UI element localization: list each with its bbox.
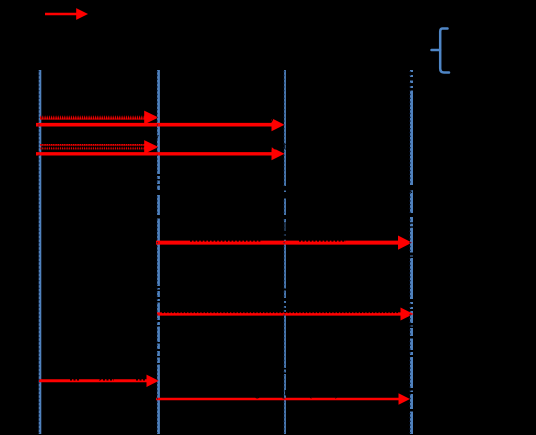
svg-text:RADIUS Accounting-Request (Sta: RADIUS Accounting-Request (Start): [162, 387, 339, 399]
lifeline 3: [284, 70, 286, 434]
svg-text:side of the connection: side of the connection: [293, 226, 400, 238]
svg-text:Access: Access: [262, 47, 298, 59]
letter-bottom bites on top edge of arrow 5: [70, 379, 146, 381]
svg-text:Access: Access: [128, 47, 164, 59]
svg-text:over the wired network: over the wired network: [163, 226, 274, 238]
row 1: zigzag wireless arrow: [40, 111, 159, 125]
lifeline 4 (Authentication server): [410, 70, 413, 434]
svg-text:Wireless: Wireless: [16, 47, 59, 59]
row 6: arrow AP -> AS: [156, 393, 410, 405]
brace nub: [432, 49, 441, 52]
svg-text:exchange then takes place: exchange then takes place: [293, 184, 424, 196]
letter-bottom bites on top edge of arrow 3: [190, 240, 346, 242]
invisible (black) text labels (headers and message names): [16, 9, 502, 153]
paragraph block between rows 2 and 3 (invisible black text, split around lifeline 3): [162, 184, 424, 238]
letter-bottom bites on top edge of arrow 4: [162, 312, 398, 314]
svg-text:server): server): [366, 82, 400, 94]
svg-text:EAP-Request/Identity: EAP-Request/Identity: [170, 111, 276, 123]
row-4 label block (invisible black text, split): [163, 281, 396, 329]
svg-text:containing EAP-Success: containing EAP-Success: [163, 293, 278, 305]
lifeline 2 (Access point): [157, 70, 160, 434]
svg-text:relaying the messages: relaying the messages: [293, 212, 404, 224]
row 5: arrow STA -> AP: [39, 375, 159, 387]
svg-text:between the supplicant: between the supplicant: [163, 198, 276, 210]
row 4: long arrow AP -> AS: [157, 308, 414, 321]
svg-text:RADIUS: RADIUS: [455, 51, 497, 63]
row 3: long arrow AP -> AS: [156, 236, 412, 250]
legend arrow (top-left): [45, 8, 88, 20]
svg-text:Authentication: Authentication: [364, 37, 434, 49]
dark dotted left-edge texture on lifelines: [39, 71, 410, 433]
svg-text:MPPE attributes: MPPE attributes: [163, 317, 239, 329]
svg-text:EAP over: EAP over: [455, 37, 502, 49]
svg-text:EAP-Response/Identity: EAP-Response/Identity: [45, 132, 159, 144]
occlusion dashes on lifeline 2 (text crossings): [157, 174, 162, 365]
svg-text:with the authenticator: with the authenticator: [162, 212, 268, 224]
svg-text:Access-Accept message: Access-Accept message: [163, 281, 278, 293]
brace (top right): [440, 29, 449, 73]
svg-text:returned with Success: returned with Success: [293, 281, 396, 293]
row-5/6 labels (invisible black text): [45, 369, 339, 399]
occlusion dashes on lifeline 3 (paragraph zone): [283, 186, 288, 374]
svg-text:point: point: [133, 59, 157, 71]
svg-text:and the RADIUS server,: and the RADIUS server,: [293, 198, 410, 210]
row 2: straight arrow to lifeline3: [36, 147, 285, 160]
svg-text:and the pairwise key: and the pairwise key: [293, 293, 389, 305]
svg-text:RADIUS Access-Request: RADIUS Access-Request: [168, 141, 287, 153]
row 2: zigzag wireless arrow: [40, 140, 159, 154]
svg-text:controller: controller: [256, 59, 302, 71]
svg-text:station: station: [19, 59, 51, 71]
svg-text:EAPOL-Start: EAPOL-Start: [45, 103, 109, 115]
svg-text:802.11 radio link: 802.11 radio link: [95, 9, 175, 21]
occlusion dashes on lifeline 4 (header and paragraph): [410, 72, 415, 412]
lifeline 1 (Station): [39, 70, 42, 434]
svg-text:The EAP authentication: The EAP authentication: [163, 184, 278, 196]
svg-text:server: server: [366, 51, 397, 63]
row 1: straight arrow to lifeline3: [36, 118, 285, 131]
